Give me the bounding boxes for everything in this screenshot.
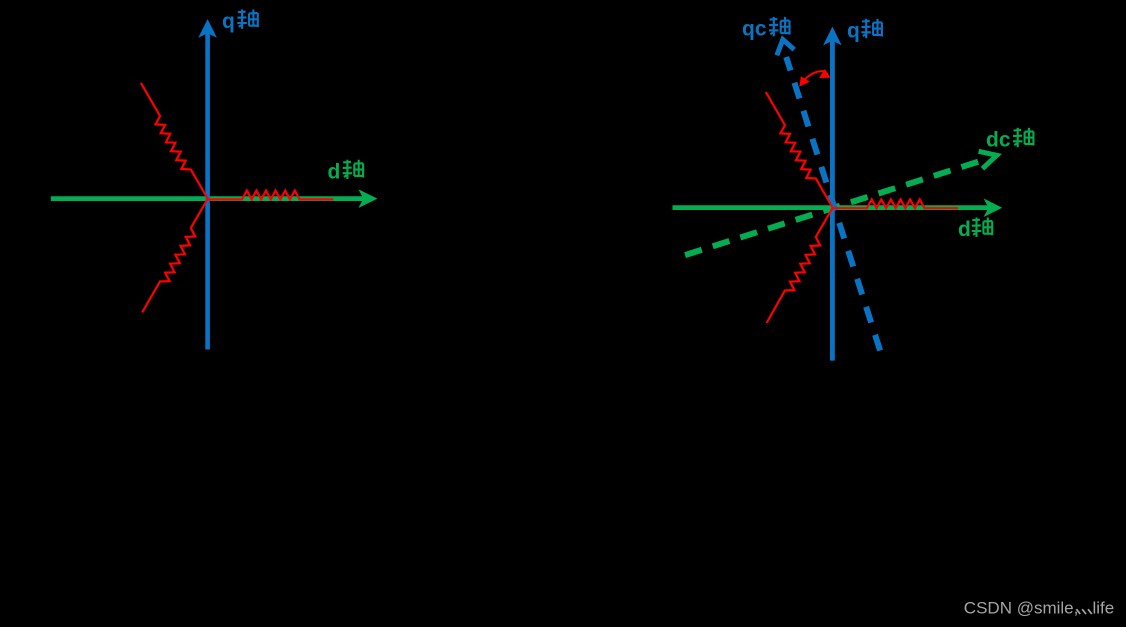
watermark tick 3 <box>1088 609 1092 614</box>
watermark tick 1 <box>1076 609 1080 614</box>
winding phase A (right, horizontal, red) <box>833 199 959 208</box>
dc axis arrowhead chevron <box>979 151 997 168</box>
angle arc between qc and q (red curved double arrow) <box>803 71 826 82</box>
svg-text:dc: dc <box>986 129 1011 152</box>
svg-text:d: d <box>328 160 341 183</box>
angle arc right arrowhead <box>819 69 831 78</box>
q axis arrowhead <box>823 27 842 46</box>
q axis (blue vertical solid) <box>830 40 835 361</box>
d axis arrowhead <box>984 198 1003 217</box>
svg-text:qc: qc <box>742 18 767 41</box>
svg-text:CSDN @smile,: CSDN @smile, <box>964 598 1079 617</box>
dc axis (green dashed) <box>685 161 980 255</box>
qc axis arrowhead chevron <box>777 40 794 56</box>
angle arc left arrowhead <box>799 76 810 86</box>
qc axis (blue dashed) <box>786 57 880 351</box>
d axis arrowhead <box>358 189 377 208</box>
svg-text:q: q <box>847 20 860 43</box>
winding phase C (left, lower-left diagonal, red) <box>142 199 208 313</box>
svg-text:d: d <box>958 218 971 241</box>
q axis (blue vertical) <box>205 33 210 350</box>
d axis (green horizontal) <box>51 196 364 201</box>
winding phase B (right, upper-left diagonal, red) <box>766 92 833 208</box>
winding phase A (left, horizontal, red) <box>208 191 334 200</box>
winding phase C (right, lower-left diagonal, red) <box>767 208 833 323</box>
svg-text:life: life <box>1093 598 1115 617</box>
d axis (green horizontal solid) <box>673 205 990 210</box>
winding phase B (left, upper-left diagonal, red) <box>141 83 208 199</box>
svg-text:q: q <box>222 10 235 33</box>
watermark tick 2 <box>1082 609 1086 614</box>
q axis arrowhead <box>198 19 217 38</box>
